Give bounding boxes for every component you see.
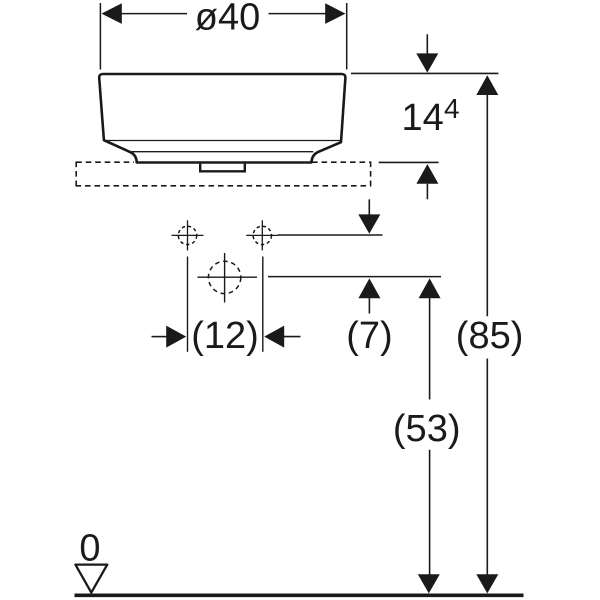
drain level line xyxy=(268,276,441,278)
rim level line xyxy=(351,72,498,74)
svg-text:ø40: ø40 xyxy=(195,0,260,39)
svg-text:4: 4 xyxy=(444,93,460,124)
dim 12 extension right xyxy=(262,257,264,352)
counter level line xyxy=(379,161,439,163)
drain flange xyxy=(200,164,245,172)
dimension ø40 extension left xyxy=(99,3,101,70)
dim 12 arrow left xyxy=(152,326,187,348)
dimension ø40 arrow left xyxy=(102,3,122,24)
svg-text:0: 0 xyxy=(79,528,100,570)
dim 14 label xyxy=(402,93,460,139)
svg-text:(53): (53) xyxy=(393,408,461,450)
dim 7 arrow (up) xyxy=(358,278,380,313)
basin outline xyxy=(99,74,345,163)
dim 85 line xyxy=(476,75,498,593)
drain crosshair xyxy=(198,253,258,303)
tap hole left crosshair xyxy=(172,220,204,250)
dim 12 arrow right xyxy=(264,326,300,348)
tap hole right crosshair xyxy=(246,220,278,250)
dim 12 extension left xyxy=(187,257,189,352)
basin inner edge lower xyxy=(132,151,314,153)
dim 14 top arrow xyxy=(416,34,438,72)
datum triangle xyxy=(75,565,107,593)
dim 53 line xyxy=(418,278,441,593)
dimension ø40 arrow right xyxy=(325,3,345,24)
dimension ø40 extension right xyxy=(346,3,348,70)
basin inner edge upper xyxy=(105,140,341,142)
countertop (dashed) xyxy=(76,162,372,186)
svg-text:(85): (85) xyxy=(456,315,524,357)
tap hole level line xyxy=(278,234,383,236)
svg-text:14: 14 xyxy=(402,97,444,139)
tap hole level arrow (down) xyxy=(358,199,380,234)
dimension ø40 line left xyxy=(120,13,187,15)
dim 14 bottom arrow xyxy=(416,164,438,199)
svg-text:(7): (7) xyxy=(346,315,392,357)
dimension ø40 line right xyxy=(269,13,328,15)
svg-text:(12): (12) xyxy=(191,315,259,357)
floor line xyxy=(75,593,524,597)
